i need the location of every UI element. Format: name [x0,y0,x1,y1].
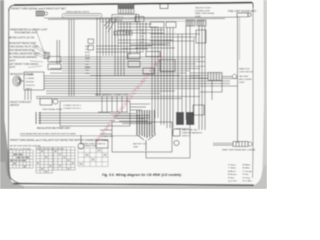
svg-text:P/BU: P/BU [85,73,90,75]
svg-text:TAILLIGHT: TAILLIGHT [239,75,249,78]
svg-text:OIL PRESSURE WARNING: OIL PRESSURE WARNING [9,56,38,59]
svg-text:HEADLIGHT BEAM LIGHT: HEADLIGHT BEAM LIGHT [9,42,37,45]
leader lines from left labels [28,30,46,68]
table T3 [54,147,76,170]
svg-text:G Green: G Green [228,164,237,167]
headlight terminal box with text [24,72,44,90]
svg-text:REAR STOP: REAR STOP [239,68,251,71]
right connector block [208,73,237,81]
winker relay dark box [118,4,134,9]
table header smudge row [10,146,65,151]
svg-text:SWITCH: SWITCH [114,20,123,22]
svg-text:REGULATOR RECTIFIER ASSY: REGULATOR RECTIFIER ASSY [37,127,71,130]
box below right cluster [193,105,204,115]
svg-text:GR/R: GR/R [85,58,90,60]
svg-text:LEFT FRONT TURN SIGNAL: LEFT FRONT TURN SIGNAL [9,63,40,66]
svg-text:BL/W: BL/W [85,55,90,57]
svg-text:METER LIGHTS 12V 3W: METER LIGHTS 12V 3W [9,38,36,40]
battery outline box [112,122,172,152]
scan bottom-left corner shadow [0,162,24,189]
svg-text:ALTERNATOR: ALTERNATOR [176,128,190,131]
svg-text:P Pink: P Pink [243,174,250,176]
table T1 [9,150,33,168]
wires bottom center [146,128,190,158]
svg-text:IGNITION: IGNITION [114,17,124,19]
dots T1 [10,154,29,168]
svg-text:LIGHT: LIGHT [195,16,202,18]
svg-text:W White: W White [243,164,252,167]
svg-text:SPEEDOMETER ILLUMINAT LIGHT: SPEEDOMETER ILLUMINAT LIGHT [10,29,48,32]
svg-text:LIGHT: LIGHT [239,82,245,84]
T1 connecting dashes [11,155,28,161]
top right fuse box with circle [237,13,251,17]
rear light unit [213,142,252,147]
small box top-mid-right [160,4,168,9]
svg-text:TACHOMETER LIGHT: TACHOMETER LIGHT [14,32,38,35]
table T4 bordered [78,148,108,167]
svg-text:HIGH BEAM INDICATOR AND IGNITI: HIGH BEAM INDICATOR AND IGNITION SWITCH … [20,133,76,136]
left label column texts [9,29,49,108]
key switch dark box [118,9,134,14]
main harness trunk (striped) [137,110,155,138]
svg-text:Bl Black: Bl Black [228,171,236,173]
fuse box right of battery [173,129,180,136]
svg-text:12AH: 12AH [133,146,139,149]
left-to-middle horizontal bundle [44,76,237,94]
svg-text:BATTERY 12V: BATTERY 12V [133,143,147,146]
fan wires from instrument cluster [104,13,136,32]
svg-text:R/W: R/W [85,64,89,66]
svg-text:GROUND: GROUND [26,82,35,84]
small hatch connector left-center [44,53,50,59]
small switch boxes center [128,52,175,75]
upper interconnect links [96,24,200,52]
svg-text:Bu Blue: Bu Blue [243,168,251,170]
small boxes left-center stack [48,57,61,70]
right cluster labels [239,68,253,85]
svg-text:TAILSTOP LIGHT: TAILSTOP LIGHT [195,7,212,10]
ignition switch drop wires [115,22,130,75]
svg-text:FUEL UNIT GAUGE ASSY: FUEL UNIT GAUGE ASSY [228,10,257,13]
svg-text:LO BEAM: LO BEAM [26,77,35,80]
long double rail [36,96,200,98]
staircase wires right of harness [110,104,152,124]
svg-text:LG/Y: LG/Y [85,61,90,63]
svg-text:Lb Lt Blue: Lb Lt Blue [243,180,253,183]
svg-text:Fig. 9.9. Wiring diagram for C: Fig. 9.9. Wiring diagram for CB 450K (US… [102,173,182,177]
scan bottom-right corner shadow [245,165,267,189]
svg-text:POSITION: POSITION [26,85,36,87]
X marks in T4 [79,149,107,165]
svg-text:REAR TURN SIGNAL: REAR TURN SIGNAL [195,12,215,15]
horn symbol [78,135,84,149]
svg-text:O/W: O/W [85,70,89,72]
svg-text:HIGH BEAM INDICATOR: HIGH BEAM INDICATOR [9,49,35,52]
right-middle vertical wires [186,26,205,130]
headlight box drop wires [25,90,31,100]
svg-text:BR/BL: BR/BL [85,67,90,69]
horizontal bundle mid (switch cluster wires) [50,57,205,75]
connector hatch row below ignition switch [114,31,132,35]
scan right grey edge [262,0,267,189]
second top rail [100,20,205,22]
wires from headlight to box [21,80,24,82]
svg-text:CONNECTIONS: CONNECTIONS [83,146,98,148]
turn signal relay box left-mid [40,99,58,106]
svg-text:FRONT TURN SIGNAL and A RIGHT-: FRONT TURN SIGNAL and A RIGHT-OUT DET [11,6,66,10]
trunk taper [136,134,156,151]
extra verticals right-middle [178,34,194,125]
small connector pair left-mid [88,39,94,50]
svg-text:BU/W: BU/W [85,52,90,54]
scan bottom grey band [0,186,267,189]
page bottom edge shadow line [13,184,254,186]
ignition switch open box [112,15,139,23]
svg-text:HI BEAM: HI BEAM [26,74,34,77]
frame right border [252,3,254,178]
svg-text:SWITCH: SWITCH [182,136,190,138]
svg-text:Br Brown: Br Brown [228,173,237,176]
extra cross links upper-middle [125,33,194,48]
svg-text:CONNECTOR NO.1: CONNECTOR NO.1 [63,105,82,107]
alternator connectors (dark blocks) [176,112,194,125]
wire bundle under relay [38,113,150,123]
dots T2 [37,151,51,173]
boxes above center harness [150,22,176,28]
svg-text:Y Yellow: Y Yellow [228,168,236,170]
top bus wire [44,16,237,19]
svg-text:STARTER MAGNETIC: STARTER MAGNETIC [182,132,203,135]
handlebar loom outline [62,14,102,18]
svg-text:BL/W: BL/W [141,33,146,35]
dots T3 [55,151,73,170]
svg-text:HORN SWITCH: HORN SWITCH [122,49,138,51]
svg-text:O Orange: O Orange [243,170,253,173]
svg-text:SWITCH: SWITCH [10,105,19,107]
starter relay circle [174,140,179,145]
frame corner top-right [252,3,253,8]
table T2 [36,147,53,173]
small box right of horn [96,140,108,148]
svg-text:LICENSE LIGHT: LICENSE LIGHT [195,10,211,12]
long bottom rail [20,135,140,137]
scan left grey band [0,0,12,189]
frame top border [9,5,14,11]
wire harness big rectangle [60,101,130,126]
frame left border [8,9,21,184]
svg-text:LIGHT: LIGHT [9,67,16,69]
svg-text:TURN SIGNAL RELAY: TURN SIGNAL RELAY [42,108,63,111]
svg-text:REAR TURN SIGNAL AND LICENSE: REAR TURN SIGNAL AND LICENSE [222,149,256,152]
svg-text:LIGHT SWITCH: LIGHT SWITCH [239,72,253,74]
svg-text:CONNECTOR NO.2: CONNECTOR NO.2 [63,108,82,110]
svg-text:TURN SIGNAL PILOT LIGHT: TURN SIGNAL PILOT LIGHT [9,46,40,49]
headlight symbol (concentric circles) [13,76,21,86]
connector marks left ends [36,112,40,124]
wires entering harness rect from top [98,96,128,112]
wire from fuse box down (right long vertical) [237,17,239,143]
small connector box above secondary bundle [135,17,144,22]
svg-text:FRONT STOPLIGHT: FRONT STOPLIGHT [10,102,32,104]
svg-text:R Red: R Red [228,177,235,179]
paper background [0,0,267,189]
secondary vertical bundle [137,22,146,53]
left wires into battery box [100,130,112,134]
alternator terminal blocks top-right [186,20,206,26]
svg-text:NEUTRAL INDICATOR LIGHT: NEUTRAL INDICATOR LIGHT [9,53,41,56]
svg-text:LIGHT: LIGHT [9,61,16,63]
wire labels column mid-top [141,30,146,47]
svg-text:Lg Lt Grn: Lg Lt Grn [228,180,238,183]
svg-text:AND LICENSE: AND LICENSE [239,78,252,81]
wires below right cluster [200,81,222,101]
left vertical drop wires from bus [57,19,74,96]
tiny bundle labels [85,46,90,75]
svg-text:SPEEDOMETER LIGHTS: SPEEDOMETER LIGHTS [66,11,90,13]
middle vertical harness [152,28,173,129]
svg-text:W/BL: W/BL [85,46,90,48]
svg-text:Gr Grey: Gr Grey [243,176,251,179]
svg-text:WIRE HARNESS CONNECTIONS: WIRE HARNESS CONNECTIONS [95,93,129,96]
box below right terminals [196,30,206,43]
svg-text:LIGHTING SWITCH: LIGHTING SWITCH [146,45,166,47]
fanned vertical wires from top bus [97,18,115,96]
right side mid cluster wires [190,73,232,78]
connector block top-left [36,11,48,16]
svg-text:EARTH: EARTH [26,87,33,90]
